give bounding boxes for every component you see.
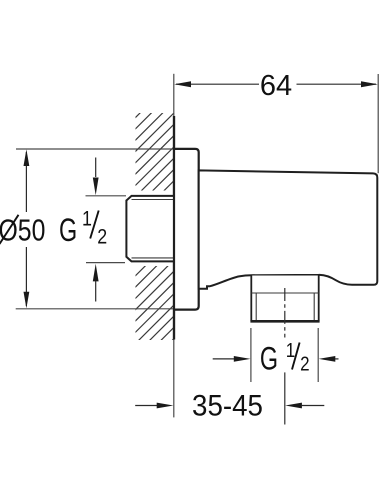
pipe G1/2 wall inlet (126, 196, 174, 262)
small dim bottom arrow line (95, 281, 97, 302)
64 right arrow (361, 81, 378, 87)
body outline (199, 170, 378, 288)
svg-text:2: 2 (300, 352, 309, 375)
35-45 right arrow (285, 403, 302, 409)
wall face edge (173, 116, 175, 340)
G 1/2 left label: slash (90, 211, 99, 239)
64 dim: left extension line (173, 74, 175, 116)
bottom G1/2 left arrow tail (213, 358, 234, 360)
svg-text:G: G (260, 341, 278, 376)
O50 top extension line (16, 148, 174, 150)
svg-text:2: 2 (97, 225, 107, 249)
64 left arrow (174, 81, 191, 87)
O50 bottom extension line (16, 308, 174, 310)
35-45 right arrow tail (302, 405, 325, 407)
64 dim line left part (176, 83, 259, 85)
small dim top arrow (93, 178, 99, 196)
bottom G1/2 right arrow (319, 356, 336, 362)
bottom G1/2 dim: right ext line (317, 328, 319, 382)
bottom G1/2 label: slash (292, 343, 300, 370)
svg-text:35-45: 35-45 (192, 390, 263, 423)
O50 bottom arrow (24, 292, 30, 309)
35-45 left arrow tail (135, 405, 157, 407)
flange (escutcheon) (174, 149, 199, 310)
small dim bottom ext segment (86, 262, 125, 264)
64 dim line right part (297, 83, 377, 85)
centerline (dash-dot) (284, 288, 286, 338)
bottom G1/2 right arrow tail (335, 358, 339, 360)
small dim top arrow line (95, 158, 97, 178)
O50 slash (0, 215, 19, 244)
svg-text:G: G (59, 211, 77, 248)
svg-text:64: 64 (260, 70, 292, 102)
svg-text:1: 1 (286, 338, 295, 361)
bottom connector G1/2 (250, 276, 319, 322)
small dim bottom arrow (93, 264, 99, 282)
wall hatching (0, 100, 381, 385)
small dim top ext segment (86, 195, 127, 197)
O50 dim line (25, 152, 27, 306)
O50 top arrow (24, 149, 30, 166)
35-45 dim: left ext line (173, 340, 175, 418)
35-45 left arrow (157, 403, 174, 409)
bottom G1/2 dim: left ext line (250, 328, 252, 382)
svg-text:1: 1 (82, 207, 92, 231)
bottom G1/2 left arrow (234, 356, 251, 362)
64 dim: right extension line (377, 74, 379, 173)
svg-text:O50: O50 (0, 213, 45, 247)
wall face edge over pipe (173, 116, 175, 340)
